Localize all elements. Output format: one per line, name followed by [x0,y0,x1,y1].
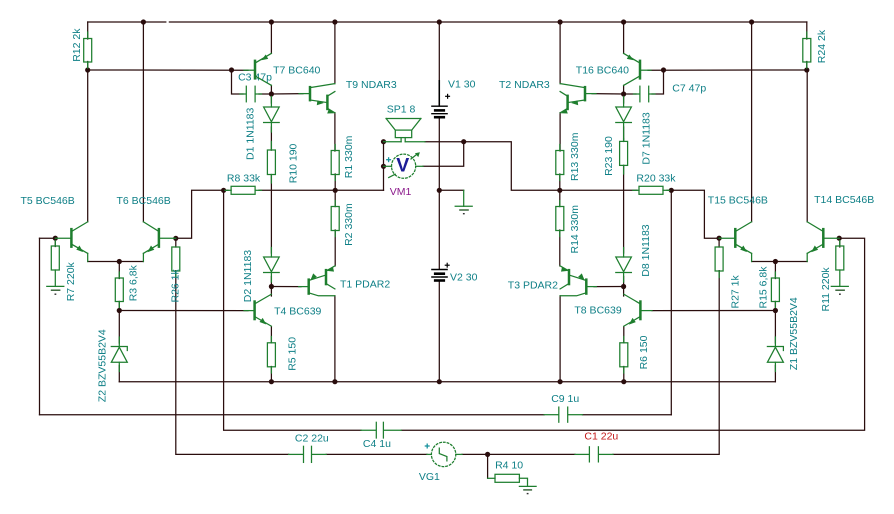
wire T1 collector to rail [334,296,336,382]
svg-text:V2 30: V2 30 [450,271,478,283]
junction bottom rail R5 [269,379,274,384]
junction R8 left node [221,188,226,193]
wire T14 collector vertical [806,70,808,222]
junction speaker left [381,139,386,144]
svg-text:C7 47p: C7 47p [672,83,706,95]
wire V2 bottom to bottom rail [438,281,440,381]
wire node to D1 anode [270,94,272,103]
transistor T14 [807,194,874,262]
wire T8 base wire [652,310,775,312]
wire T5 base feedback vertical [39,238,41,415]
resistor R1 [331,135,355,180]
wire R24 bottom to y70 rail [806,62,808,71]
wire R3 bottom to node [118,302,120,311]
wire speaker left vertical [383,142,385,191]
ground at supply mid node [455,190,472,213]
battery V1 [431,78,475,117]
wire R14 bottom to T3 emitter [559,230,561,266]
battery V2 [431,263,477,284]
wire R2 top from output node [334,190,336,206]
svg-text:V: V [396,155,409,177]
wire R12 top stub from rail [87,22,89,39]
wire T6 collector vertical from rail [142,22,144,222]
svg-text:SP1 8: SP1 8 [387,104,416,116]
svg-text:R13 330m: R13 330m [569,132,581,181]
wire C1 right to R27 column [613,271,719,455]
wire C4 right to T14 base feedback [401,238,864,430]
wire Z1 bottom to rail [774,366,776,382]
wire T7 collector to node [270,85,272,94]
wire R2 bottom to T1 emitter [334,230,336,266]
wire T2 emitter to R13 top [559,113,561,151]
transistor T6 [117,195,176,262]
capacitor C4 [361,422,401,450]
resistor R8 [225,172,262,194]
svg-text:R8 33k: R8 33k [227,172,261,184]
diode D2 [242,248,279,303]
svg-text:T7 BC640: T7 BC640 [273,65,320,77]
wire T9 collector to top rail [334,22,336,84]
wire T4 collector to node [270,287,272,297]
resistor R6 [620,335,650,373]
wire R15 top from emitter node [774,262,776,279]
junction right output node R13 R14 [557,188,562,193]
transistor T1 (PNP darlington) [299,266,391,296]
svg-text:T6 BC546B: T6 BC546B [117,195,171,207]
junction T14 base node [837,236,842,241]
resistor R12 [71,28,92,68]
resistor R4 [488,459,524,482]
wire right output jog to R13 R14 junction [464,142,560,191]
wire C3 right plate to node [259,93,271,95]
svg-text:D2 1N1183: D2 1N1183 [242,250,254,303]
svg-text:R12 2k: R12 2k [71,28,83,62]
svg-text:VM1: VM1 [390,186,412,198]
ground below R7 [47,270,64,294]
svg-text:T3 PDAR2: T3 PDAR2 [508,279,558,291]
wire T6 base to R8 left node [176,190,224,238]
wire VG1 to R4 node [462,453,488,455]
junction C3 D1 T7 T9 node [269,91,274,96]
junction top rail at T16 emitter [621,19,626,24]
junction T6 base node [173,236,178,241]
wire Z2 bottom to rail [118,366,120,382]
resistor R24 [803,29,828,68]
wire top +V rail right segment [169,21,806,23]
svg-text:R15 6,8k: R15 6,8k [758,266,770,309]
wire right emitter horizontal [752,261,808,263]
wire R1 bottom to output node [334,174,336,190]
wire V1 column from top rail [438,22,440,106]
resistor R13 [556,132,581,181]
wire left emitter horizontal [88,261,144,263]
junction R24 bottom [804,67,809,72]
capacitor C3 [238,72,272,102]
capacitor C7 [634,83,707,102]
ground right of R4 [519,478,536,493]
wire T5 collector vertical [87,70,89,222]
wire speaker right to VM1 right vertical [425,141,464,143]
wire D1 cathode to R10 top [270,127,272,150]
wire T16 emitter to top rail [623,22,625,53]
resistor R2 [331,201,355,246]
wire T7 emitter to top rail [270,22,272,53]
wire T1 base from node [271,286,301,288]
wire T8 emitter to R6 top [623,327,625,343]
wire Z1 column [774,311,776,344]
junction D8 T3 T8 node [621,284,626,289]
transistor T5 [21,195,88,262]
svg-text:R23 190: R23 190 [603,136,615,176]
svg-text:R20 33k: R20 33k [636,172,676,184]
junction C3 tee on y70 rail [229,67,234,72]
wire R20 right to node [667,189,671,191]
capacitor C9 [544,393,582,422]
wire mid node to ground stem [439,189,463,191]
zener Z1 [767,297,800,371]
transistor T3 (PNP darlington) [508,266,597,296]
wire C4 vertical from R8 node [224,190,362,430]
wire R7 stub below T5 base node [54,238,56,246]
junction VM1 left [381,164,386,169]
wire node to D7 anode [623,94,625,103]
transistor T2 (NPN darlington) [499,79,596,113]
svg-text:Z2 BZV55B2V4: Z2 BZV55B2V4 [97,329,109,402]
wire T8 collector to node [623,287,625,297]
junction VG1 R4 node [485,452,490,457]
wire R27 stub below T15 base node [718,238,720,247]
svg-text:VG1: VG1 [419,471,440,483]
resistor R26 [170,247,182,303]
svg-text:V1 30: V1 30 [448,78,476,90]
voltmeter VM1 [384,152,424,198]
svg-text:R5 150: R5 150 [287,337,299,371]
speaker SP1 [384,104,426,142]
svg-text:T1 PDAR2: T1 PDAR2 [340,279,390,291]
svg-text:R10 190: R10 190 [287,143,299,183]
wire T5 base wire [40,237,57,239]
junction right emitter node R15 [773,259,778,264]
wire T4 base wire [119,310,248,312]
svg-text:T4 BC639: T4 BC639 [274,305,321,317]
resistor R14 [556,201,581,254]
junction R15 Z1 T8-base node [773,308,778,313]
wire R10 bottom across bus to D2 anode [270,175,272,253]
wire second rail y70 left (R12 to T7 base) [88,69,248,71]
capacitor C1 [575,431,618,462]
wire R13 bottom to junction [559,174,561,190]
junction speaker right [461,139,466,144]
svg-text:R6 150: R6 150 [638,335,650,369]
wire D2 cathode to node [270,277,272,287]
svg-text:R26 1k: R26 1k [170,268,182,302]
wire C7 left plate to node [624,93,636,95]
transistor T7 [244,53,321,85]
svg-text:R4 10: R4 10 [495,459,523,471]
resistor R3 [115,264,139,307]
wire VM1 right link [423,142,464,167]
svg-text:T5 BC546B: T5 BC546B [21,195,75,207]
transistor T15 [708,195,768,262]
wire R20 node to T15 base [671,190,719,238]
wire T16 collector to node [623,85,625,94]
transistor T4 [244,294,322,326]
wire T15 collector vertical from rail [751,22,753,222]
capacitor C2 [289,433,329,463]
resistor R27 [715,247,741,309]
junction supply mid node [437,188,442,193]
junction top rail at T9 collector [332,19,337,24]
wire C9 line left segment to T5 base feedback [40,414,545,416]
junction bottom rail V2 [437,379,442,384]
junction bottom rail T1 collector [332,379,337,384]
junction R12 bottom [85,67,90,72]
junction D2 T1 T4 node [269,284,274,289]
junction top rail at T6 collector [141,19,146,24]
wire R5 bottom to rail [270,367,272,382]
wire R26 stub below T6 base node [175,238,177,247]
svg-text:C2 22u: C2 22u [295,433,329,445]
svg-text:D1 1N1183: D1 1N1183 [245,107,257,160]
junction bottom rail R6 [621,379,626,384]
junction top rail at T15 collector [749,19,754,24]
wire C3 drop from y70 rail [232,70,244,94]
wire R23 bottom across bus to D8 anode [623,165,625,253]
wire T4 emitter to R5 top [270,327,272,343]
wire R4 node to C1 [488,453,575,455]
svg-text:R11 220k: R11 220k [820,267,832,312]
svg-text:T16 BC640: T16 BC640 [576,65,629,77]
svg-text:T15 BC546B: T15 BC546B [708,195,768,207]
junction C7 D7 T16 T2 node [621,91,626,96]
svg-text:R24 2k: R24 2k [816,29,828,63]
junction T5 base node [53,236,58,241]
wire T2 base from node [592,93,624,95]
wire mid node to V2 top [438,190,440,269]
svg-text:D7 1N1183: D7 1N1183 [641,112,653,165]
resistor R20 [633,172,676,194]
svg-text:T8 BC639: T8 BC639 [574,305,621,317]
svg-text:R2 330m: R2 330m [343,203,355,246]
svg-text:R1 330m: R1 330m [343,135,355,178]
junction left emitter node R3 [117,259,122,264]
wire bus junction to R20 left [560,189,637,191]
svg-text:C9 1u: C9 1u [551,393,579,405]
wire T2 collector to top rail [559,22,561,84]
junction top rail at V1 [437,19,442,24]
resistor R5 [267,337,298,374]
svg-text:C1 22u: C1 22u [584,431,618,443]
wire output node to speaker left branch [335,189,383,191]
junction R3 Z2 T4-base node [117,308,122,313]
junction left output node R1 R2 [333,188,338,193]
wire C9 feedback vertical from R20 node [670,190,672,414]
wire C7 drop from y70 rail [652,70,664,94]
svg-text:T14 BC546B: T14 BC546B [814,194,874,206]
wire V1 bottom to mid node [438,118,440,190]
junction R20 right node [669,188,674,193]
wire Z2 column [118,311,120,344]
wire T9 emitter to R1 top [334,113,336,151]
generator VG1 [419,442,462,483]
wire R12 bottom to y70 rail [87,62,89,71]
wire bottom rail [119,381,775,383]
wire C2 to VG1 [326,453,427,455]
zener Z2 [97,329,128,402]
svg-text:T2 NDAR3: T2 NDAR3 [499,79,550,91]
wire R15 bottom to node [774,302,776,311]
junction T15 base node [717,236,722,241]
wire R11 stub below T14 base node [839,238,841,247]
wire R6 bottom to rail [623,367,625,382]
resistor R7 [51,241,77,302]
resistor R23 [603,136,628,176]
svg-text:Z1 BZV55B2V4: Z1 BZV55B2V4 [788,297,800,370]
wire second rail y70 right (T16 base to R24) [648,69,807,71]
wire T3 base from node [594,286,624,288]
svg-text:R14 330m: R14 330m [569,205,581,254]
diode D7 [616,97,653,165]
junction top rail at T7 emitter [269,19,274,24]
diode D1 [245,97,280,161]
resistor R15 [758,266,780,309]
svg-text:T9 NDAR3: T9 NDAR3 [346,79,397,91]
wire top +V rail left segment [88,21,166,23]
resistor R10 [267,141,299,183]
transistor T16 [576,53,651,85]
wire R14 top from junction [559,190,561,206]
svg-text:R7 220k: R7 220k [65,261,77,301]
wire R3 top from emitter node [118,262,120,279]
wire R4 branch vertical [487,454,489,478]
svg-text:C4 1u: C4 1u [363,438,391,450]
wire C9 line right segment [582,414,671,416]
wire bus R8 right to output node [259,189,335,191]
wire R26 column to C2 line [176,271,289,455]
transistor T8 [574,294,652,326]
diode D8 [616,224,652,282]
transistor T9 (NPN darlington) [299,79,397,113]
junction C7 tee on y70 rail [661,67,666,72]
wire D7 cathode to R23 top [623,127,625,141]
svg-text:R27 1k: R27 1k [730,274,742,308]
wire D8 cathode to node [623,277,625,287]
resistor R11 [820,241,844,312]
junction top rail at T2 collector [558,19,563,24]
wire R24 top stub from rail [806,22,808,39]
wire T9 base from node [271,93,303,95]
svg-text:R3 6,8k: R3 6,8k [128,264,140,301]
wire T3 collector to rail [559,296,561,382]
svg-text:D8 1N1183: D8 1N1183 [640,224,652,277]
wire R8 left node stub [224,189,228,191]
ground below R11 [831,270,848,294]
junction bottom rail T3 collector [558,379,563,384]
